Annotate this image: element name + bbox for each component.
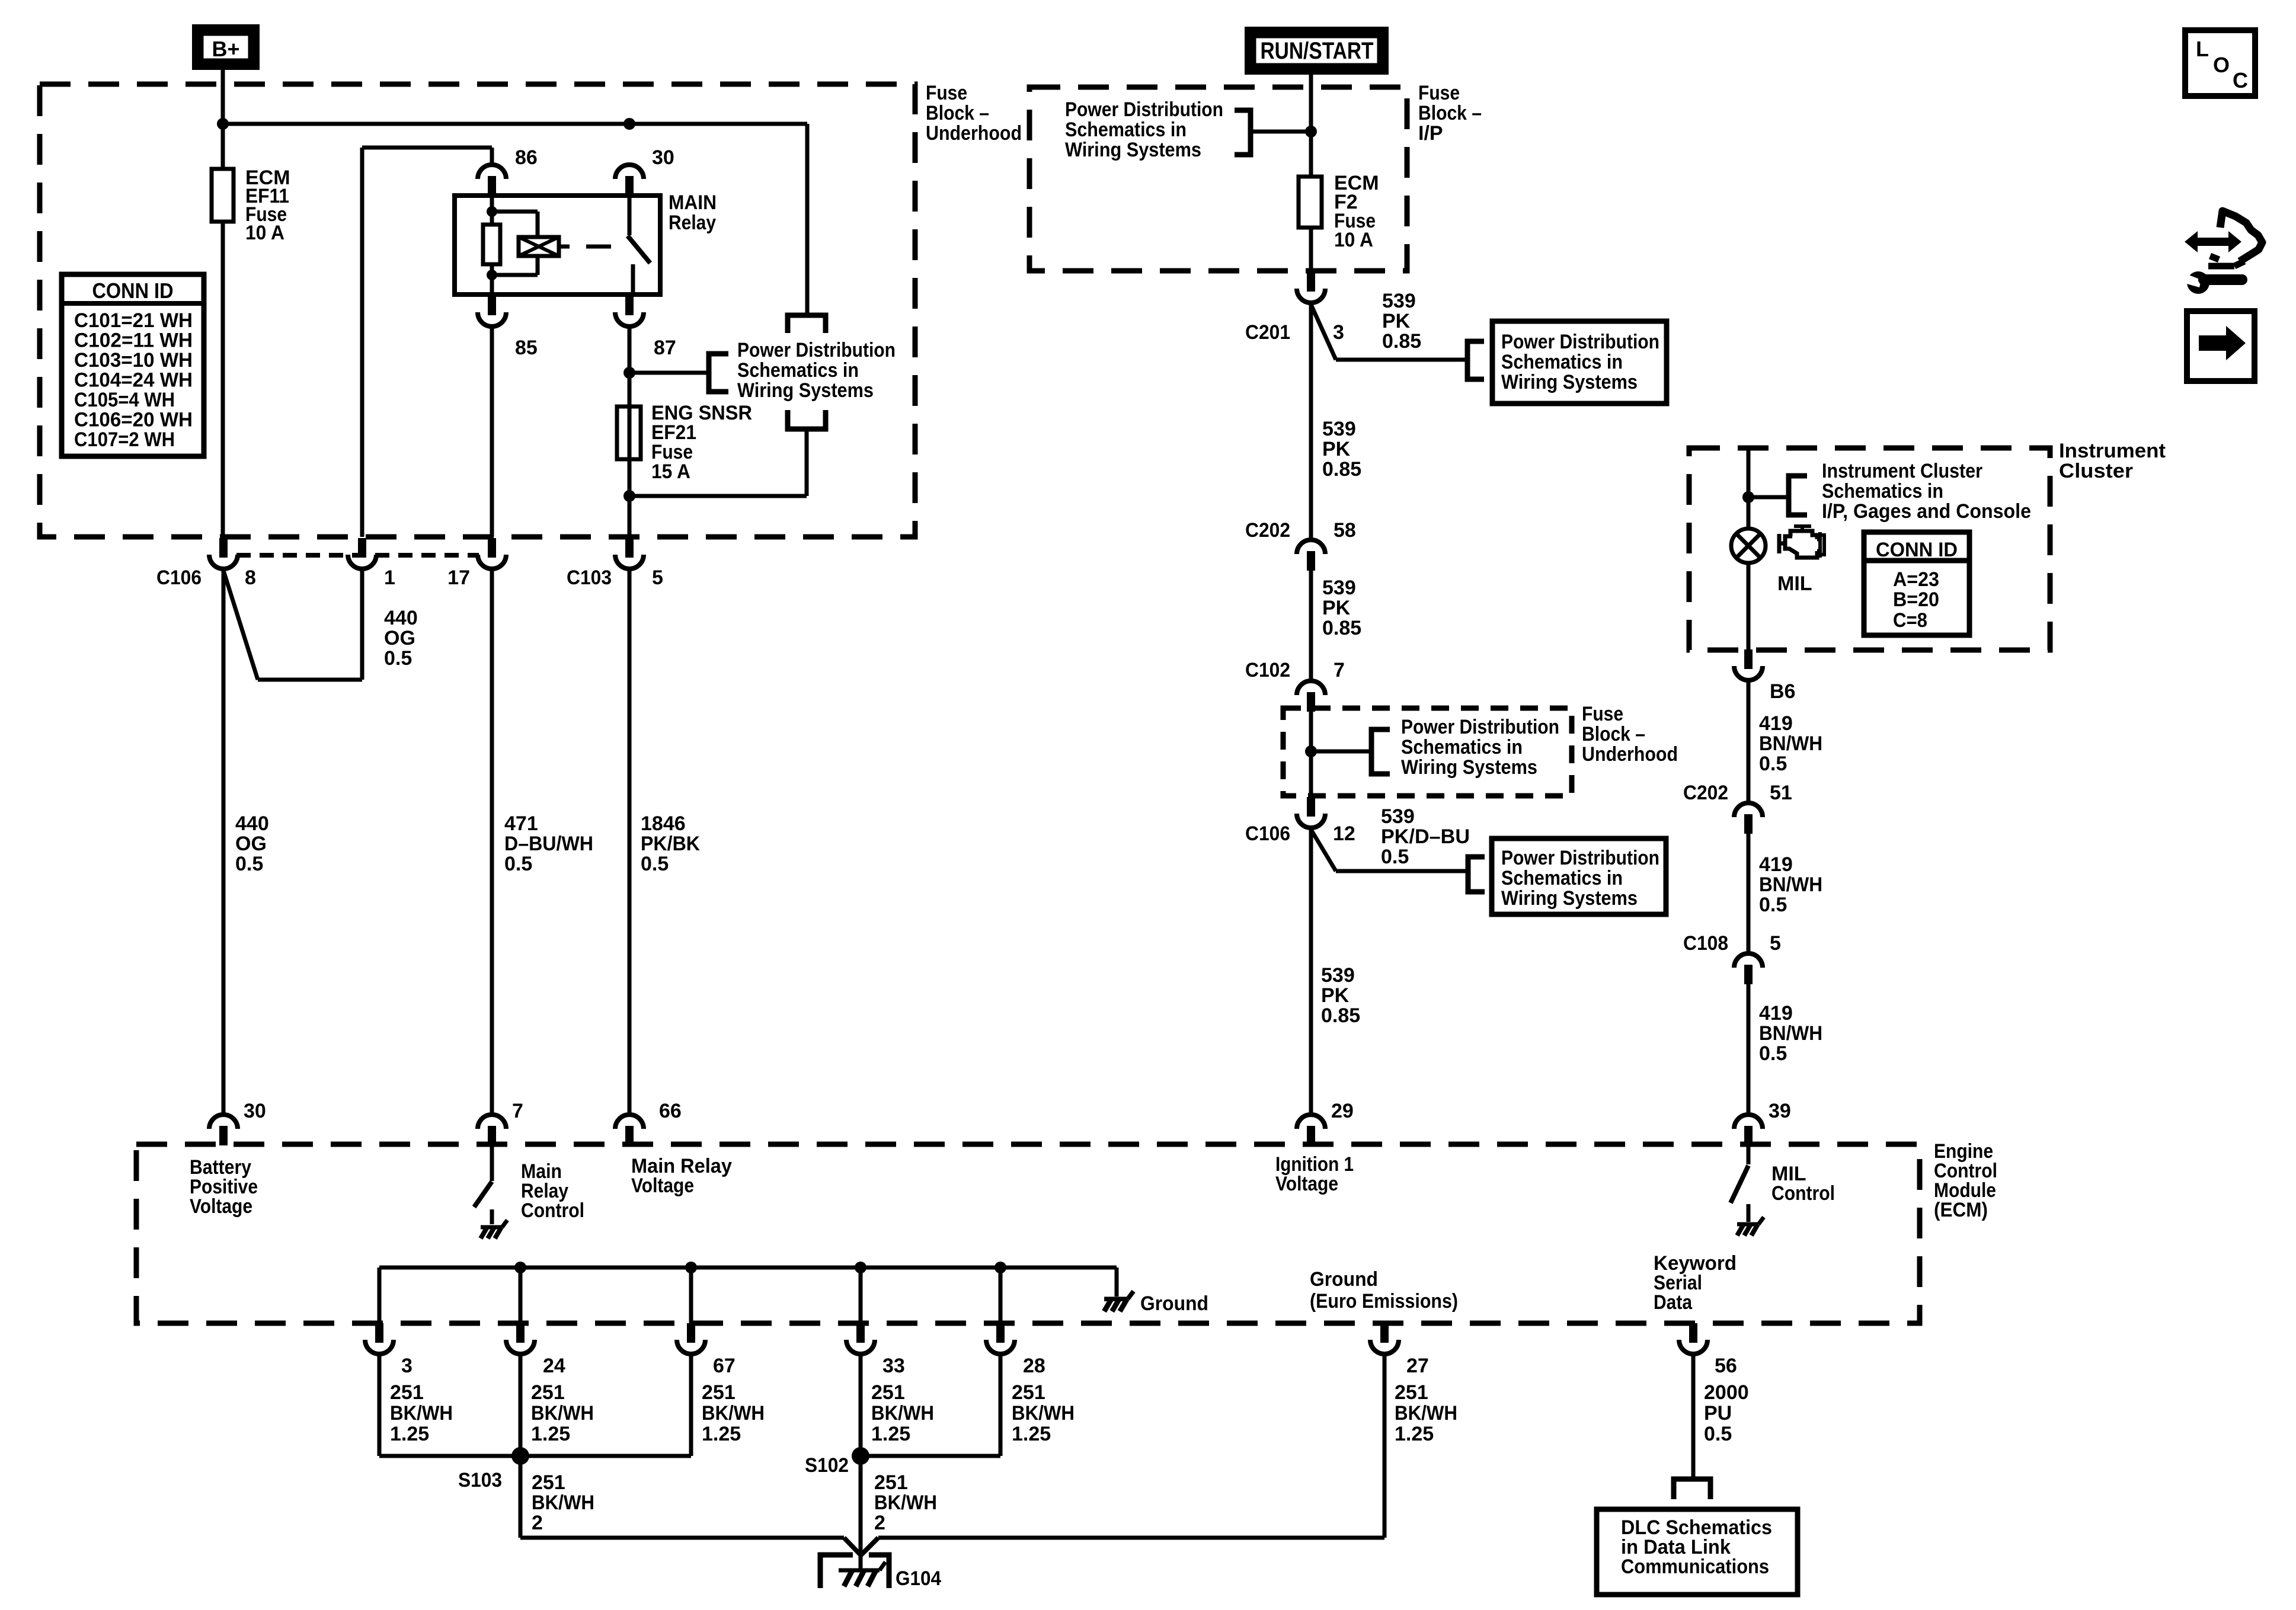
wire pin24 through S103 [519,1356,523,1538]
svg-text:0.5: 0.5 [1759,1042,1787,1065]
wire relay coil feed horizontal [362,146,492,150]
svg-text:Ground: Ground [1140,1292,1208,1315]
ECM internal switch pin7 to ground [490,1145,494,1181]
svg-text:C: C [2233,68,2248,92]
svg-text:C=8: C=8 [1893,609,1927,632]
connector ECM pin 28 [986,1323,1015,1354]
svg-text:I/P, Gages and Console: I/P, Gages and Console [1822,500,2031,523]
svg-text:Fuse: Fuse [926,82,967,104]
wire branch to reference bracket [629,371,709,375]
svg-text:440: 440 [384,607,418,629]
svg-text:0.5: 0.5 [384,647,412,670]
wire pin85 to C106-17 [490,328,494,537]
svg-text:L: L [2196,37,2209,61]
connector ECM pin 33 [846,1323,875,1354]
svg-text:BN/WH: BN/WH [1759,732,1822,755]
svg-text:539: 539 [1322,418,1356,440]
wire pin3 to S103 [378,1356,382,1456]
icon view-direction (head with double arrow and wrench) [2183,211,2262,294]
svg-text:C105=4 WH: C105=4 WH [74,389,175,411]
engine control module dashed box [136,1144,1920,1323]
svg-text:87: 87 [654,337,676,359]
svg-text:C202: C202 [1245,519,1290,542]
fuse ENG SNSR EF21 15A [617,406,641,459]
svg-text:Ground: Ground [1310,1268,1378,1291]
fuse EF11 ECM 10A [212,169,234,222]
icon continue-arrow box [2187,311,2255,381]
svg-text:251: 251 [532,1471,565,1494]
wire B+ down to EF11 fuse [221,70,225,169]
wire S103 branch to G104 [520,1536,844,1540]
wire pin56 to DLC bracket [1691,1356,1696,1479]
svg-text:C102=11 WH: C102=11 WH [74,329,193,352]
svg-text:7: 7 [512,1100,523,1122]
wire C106-17 to ECM pin7 [490,571,494,1113]
LOC legend box [2185,30,2255,96]
svg-text:I/P: I/P [1418,122,1443,145]
svg-text:1.25: 1.25 [531,1423,570,1445]
svg-text:PU: PU [1704,1402,1732,1425]
splice S103 [511,1447,529,1465]
svg-text:Power Distribution: Power Distribution [1501,331,1659,353]
ECM internal switch pin39 to ground [1747,1145,1751,1164]
wire C108-5 to ECM pin39 [1747,984,1751,1113]
svg-text:7: 7 [1334,659,1345,681]
svg-text:251: 251 [871,1381,905,1404]
instrument cluster dashed box [1689,448,2050,650]
svg-text:PK: PK [1382,310,1411,332]
svg-text:Schematics in: Schematics in [1401,736,1523,758]
connector relay pin 30 [615,165,644,196]
svg-text:C202: C202 [1683,782,1728,804]
junction dot below B+ [217,118,229,130]
reference bracket top (from B+ bus) [788,315,826,333]
svg-text:Instrument: Instrument [2059,440,2166,462]
ground bus right end to chassis ground [1115,1267,1119,1297]
wire EF11 to connector C106-8 [221,222,225,537]
wire pin27 down and across to G104 [1383,1356,1387,1538]
svg-text:Block –: Block – [1582,723,1645,745]
svg-text:OG: OG [235,833,267,855]
wire C201 straight down to C202 [1309,305,1313,538]
svg-text:Power Distribution: Power Distribution [1401,716,1559,738]
CONN ID table underhood [62,274,204,456]
svg-text:(ECM): (ECM) [1934,1199,1988,1221]
svg-text:Underhood: Underhood [926,122,1022,145]
svg-text:BK/WH: BK/WH [871,1402,934,1425]
svg-text:C102: C102 [1245,659,1290,681]
wire pin33 through S102 [859,1356,863,1570]
fuse block underhood small dashed box [1283,708,1572,796]
fuse block I/P dashed box [1029,87,1407,271]
fuse block underhood dashed box [40,84,915,537]
connector relay pin 87 [615,296,644,327]
svg-text:Power Distribution: Power Distribution [737,339,896,361]
svg-text:Wiring Systems: Wiring Systems [1065,139,1201,161]
svg-text:5: 5 [652,566,663,589]
svg-text:2: 2 [874,1512,885,1534]
svg-text:0.5: 0.5 [1759,753,1787,775]
connector C106 pin 12 [1297,797,1325,828]
svg-text:56: 56 [1715,1355,1737,1377]
svg-text:30: 30 [244,1100,266,1122]
wire coil feed vertical to C106-1 [360,148,364,537]
wire F2 to C201 [1309,228,1313,271]
wire to bracket in small box [1311,750,1371,754]
svg-text:0.85: 0.85 [1322,617,1361,639]
svg-text:Communications: Communications [1621,1555,1769,1578]
wire C106-12 diagonal branch [1311,830,1336,871]
relay coil to switch dashed link [559,245,570,249]
svg-text:1.25: 1.25 [1012,1423,1051,1445]
svg-text:BK/WH: BK/WH [532,1491,594,1514]
junction dot above relay pin 30 [623,118,635,130]
svg-text:Power Distribution: Power Distribution [1065,98,1223,121]
svg-text:251: 251 [531,1381,565,1404]
svg-text:Data: Data [1654,1291,1693,1314]
svg-text:51: 51 [1770,782,1792,804]
svg-text:PK: PK [1322,597,1351,619]
ground bus junction dots [514,1262,526,1273]
reference box DLC Schematics in Data Link Communications [1597,1509,1798,1595]
svg-text:Block –: Block – [926,102,989,124]
svg-text:0.85: 0.85 [1321,1004,1360,1027]
reference bracket (power distribution I/P) [1235,110,1251,155]
svg-text:C107=2 WH: C107=2 WH [74,428,175,451]
wire C106-8 to ECM pin30 [222,571,226,1113]
svg-text:539: 539 [1382,290,1416,312]
svg-text:BK/WH: BK/WH [1012,1402,1075,1425]
svg-text:58: 58 [1334,519,1356,542]
svg-text:Schematics in: Schematics in [1065,119,1187,141]
junction dot in small box [1305,745,1317,757]
svg-text:419: 419 [1759,1002,1793,1025]
fuse F2 ECM 10A [1299,177,1322,228]
power net RUN/START terminal [1245,27,1389,75]
connector C103 pin 5 [615,538,644,569]
ground bus taps down to pins [519,1267,523,1323]
junction dot at ENG SNSR branch top [623,367,635,379]
connector C106 pin 8 [209,538,238,569]
svg-text:Schematics in: Schematics in [1501,867,1623,889]
CONN ID table instrument cluster [1864,532,1969,635]
connector C201 pin 3 [1297,272,1325,303]
svg-text:Wiring Systems: Wiring Systems [1401,756,1537,779]
svg-text:33: 33 [882,1355,905,1377]
svg-text:39: 39 [1769,1100,1791,1122]
svg-text:0.85: 0.85 [1322,458,1361,481]
connector ECM pin 7 [478,1115,506,1145]
svg-text:5: 5 [1770,932,1781,955]
svg-text:28: 28 [1023,1355,1045,1377]
svg-text:0.5: 0.5 [641,853,669,875]
svg-text:O: O [2213,53,2230,77]
svg-text:C101=21 WH: C101=21 WH [74,309,193,332]
svg-text:12: 12 [1333,822,1355,845]
svg-text:30: 30 [652,146,674,169]
connector ECM pin 24 [506,1323,535,1354]
svg-text:Control: Control [1771,1182,1835,1205]
dashed connector line C106 [236,553,479,558]
svg-text:Relay: Relay [669,212,716,234]
svg-text:17: 17 [447,566,470,589]
ECM internal ground bus [379,1266,1117,1270]
relay coil junction top [487,206,497,217]
power net B+ terminal [192,24,260,70]
svg-text:67: 67 [713,1355,736,1377]
svg-text:BN/WH: BN/WH [1759,1022,1822,1045]
svg-text:29: 29 [1331,1100,1354,1122]
relay resistor [483,225,500,264]
lamp MIL indicator [1731,529,1766,563]
svg-text:10 A: 10 A [1334,229,1373,251]
svg-text:471: 471 [504,812,538,835]
connector cluster pin B6 [1734,649,1763,680]
junction dot run/start branch [1305,126,1317,137]
svg-text:8: 8 [245,566,256,589]
connector relay pin 85 [478,296,506,327]
reference bracket (instrument cluster) [1789,476,1807,515]
svg-text:B6: B6 [1770,680,1795,703]
svg-text:C106: C106 [1245,822,1290,845]
svg-text:1846: 1846 [641,812,686,835]
wire 440 OG diagonal branch [223,571,258,680]
wire to left reference bracket [1251,130,1311,134]
svg-text:(Euro Emissions): (Euro Emissions) [1310,1290,1458,1313]
svg-text:C106=20 WH: C106=20 WH [74,409,193,431]
svg-text:539: 539 [1381,805,1415,828]
svg-text:BK/WH: BK/WH [531,1402,594,1425]
svg-text:Fuse: Fuse [1582,703,1623,725]
wire RUN/START down through I/P fuse block [1309,75,1313,177]
svg-text:PK: PK [1321,984,1350,1007]
wire top horizontal bus to relay and right branch [223,122,807,126]
connector ECM pin 39 [1734,1115,1763,1145]
svg-text:1: 1 [384,566,395,589]
svg-text:Cluster: Cluster [2059,460,2133,482]
svg-text:3: 3 [401,1355,412,1377]
svg-text:RUN/START: RUN/START [1261,38,1374,64]
relay switch contact [628,196,632,235]
relay coil (solenoid box with X) [519,237,559,256]
svg-text:1.25: 1.25 [702,1423,741,1445]
svg-text:C103: C103 [567,566,612,589]
wire to cluster bracket [1748,495,1789,500]
svg-text:419: 419 [1759,712,1793,735]
ground G104 bracket [820,1555,889,1588]
svg-text:0.5: 0.5 [504,853,532,875]
svg-text:C103=10 WH: C103=10 WH [74,349,193,372]
svg-text:419: 419 [1759,853,1793,876]
svg-text:10 A: 10 A [245,222,284,244]
wire through small fuse block box [1309,708,1313,796]
connector relay pin 86 [478,165,506,196]
svg-text:Wiring Systems: Wiring Systems [1501,371,1638,393]
reference bracket bottom (to ENG SNSR junction) [788,410,826,429]
svg-text:Instrument Cluster: Instrument Cluster [1822,460,1982,482]
wire pin28 to S102 [999,1356,1003,1456]
wire lamp to cluster bottom [1747,563,1751,650]
splice S102 [852,1447,869,1465]
wire C202-51 to C108-5 [1747,833,1751,952]
reference bracket right of ENG SNSR wire [709,354,728,392]
svg-text:440: 440 [235,812,269,835]
svg-text:85: 85 [515,337,538,359]
wire right vertical to reference bracket [805,124,810,315]
svg-text:Voltage: Voltage [1275,1173,1338,1195]
svg-text:MIL: MIL [1777,572,1812,595]
svg-text:251: 251 [1012,1381,1045,1404]
connector ECM pin 3 [365,1323,394,1354]
connector C202 pin 58 [1297,540,1325,571]
svg-text:251: 251 [1395,1381,1428,1404]
svg-text:0.5: 0.5 [1759,894,1787,916]
svg-text:Voltage: Voltage [631,1174,694,1197]
wire pin87 down to C103-5 [628,328,632,537]
reference bracket (small box) [1371,729,1390,774]
svg-text:MAIN: MAIN [669,191,717,214]
connector ECM pin 27 [1370,1323,1399,1354]
svg-text:Power Distribution: Power Distribution [1501,847,1659,869]
reference bracket to lower power distribution box [1468,857,1485,892]
svg-text:3: 3 [1333,321,1344,344]
reference bracket above DLC box [1674,1479,1710,1499]
connector C106 pin 17 [478,538,506,569]
svg-text:Control: Control [521,1199,584,1222]
svg-text:Voltage: Voltage [190,1195,252,1218]
wire C106-12 straight down to ECM pin29 [1309,830,1313,1113]
wire C201 diagonal branch to power distribution box [1311,305,1336,360]
svg-text:C106: C106 [156,566,202,589]
svg-text:0.5: 0.5 [1381,846,1409,868]
svg-text:Wiring Systems: Wiring Systems [737,379,874,402]
relay internal wires [490,196,494,225]
svg-text:PK: PK [1322,438,1351,460]
svg-text:C201: C201 [1245,321,1290,344]
icon engine (MIL) [1779,526,1824,558]
svg-text:1.25: 1.25 [1395,1423,1434,1445]
svg-text:PK/BK: PK/BK [641,833,700,855]
svg-text:27: 27 [1406,1355,1429,1377]
svg-text:539: 539 [1321,964,1355,987]
svg-text:2000: 2000 [1704,1381,1749,1404]
svg-text:Schematics in: Schematics in [737,359,859,382]
svg-text:C108: C108 [1683,932,1728,955]
MAIN relay box [455,196,660,295]
svg-text:BK/WH: BK/WH [390,1402,453,1425]
junction dot in cluster [1742,491,1754,503]
connector ECM pin 66 [615,1115,644,1145]
svg-text:Wiring Systems: Wiring Systems [1501,887,1638,910]
connector C108 pin 5 [1734,953,1763,984]
svg-text:BK/WH: BK/WH [1395,1402,1457,1425]
connector C106 pin 1 [348,538,376,569]
junction dot below ENG SNSR fuse [623,490,635,502]
svg-text:0.5: 0.5 [235,853,263,875]
reference bracket to power distribution box [1467,341,1484,379]
svg-text:Fuse: Fuse [1418,82,1460,104]
svg-text:0.85: 0.85 [1382,330,1421,353]
chassis ground symbol (ECM internal) [1104,1291,1134,1311]
svg-text:251: 251 [390,1381,424,1404]
svg-text:Block –: Block – [1418,102,1482,124]
svg-text:BK/WH: BK/WH [874,1491,937,1514]
svg-text:539: 539 [1322,577,1356,599]
svg-text:Schematics in: Schematics in [1822,480,1943,502]
svg-text:C104=24 WH: C104=24 WH [74,369,193,392]
svg-text:0.5: 0.5 [1704,1423,1732,1445]
svg-text:B+: B+ [212,37,239,61]
connector ECM pin 56 [1679,1323,1707,1354]
svg-text:OG: OG [384,627,415,649]
svg-text:A=23: A=23 [1893,568,1939,591]
svg-text:2: 2 [532,1512,543,1534]
svg-text:Schematics in: Schematics in [1501,351,1623,373]
svg-text:BK/WH: BK/WH [702,1402,765,1425]
wire C202 to C102 [1309,570,1313,679]
connector ECM pin 29 [1297,1115,1325,1145]
svg-text:1.25: 1.25 [871,1423,910,1445]
svg-text:251: 251 [702,1381,736,1404]
svg-text:1.25: 1.25 [390,1423,429,1445]
svg-text:PK/D–BU: PK/D–BU [1381,825,1470,848]
svg-text:CONN ID: CONN ID [92,279,174,303]
connector ECM pin 30 [209,1115,238,1145]
svg-text:D–BU/WH: D–BU/WH [504,833,593,855]
svg-text:86: 86 [515,146,538,169]
svg-text:66: 66 [659,1100,682,1122]
wire relay pin86 vertical [490,148,494,165]
wire into cluster [1747,448,1751,530]
connector ECM pin 67 [677,1323,705,1354]
svg-text:BN/WH: BN/WH [1759,873,1822,896]
svg-text:251: 251 [874,1471,908,1494]
svg-text:15 A: 15 A [651,460,690,483]
wire pin67 to S103 [689,1356,693,1456]
svg-text:Underhood: Underhood [1582,743,1678,766]
reference box Power Distribution (lower) [1492,838,1666,914]
svg-text:S102: S102 [805,1454,849,1477]
svg-text:S103: S103 [458,1469,502,1491]
reference box Power Distribution Schematics in Wiring Systems [1492,321,1667,404]
connector C202 pin 51 [1734,803,1763,834]
wire bracket bottom to ENG SNSR lower junction [805,429,809,496]
svg-text:G104: G104 [896,1567,941,1590]
connector C102 pin 7 [1297,681,1325,712]
ground G104 chassis symbol [839,1562,885,1586]
svg-text:24: 24 [543,1355,565,1377]
relay coil junction bottom [487,270,497,280]
wire C103-5 to ECM pin66 [628,571,632,1113]
svg-text:B=20: B=20 [1893,588,1939,611]
wire B6 to C202-51 [1747,682,1751,801]
svg-text:CONN ID: CONN ID [1876,539,1958,561]
